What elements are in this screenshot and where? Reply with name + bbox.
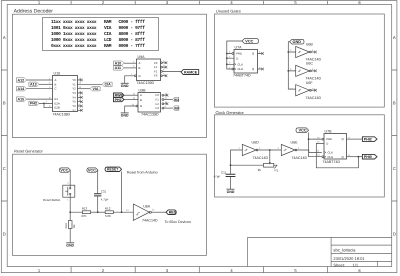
svg-text:U9A: U9A (138, 55, 146, 59)
svg-text:A12: A12 (18, 78, 25, 82)
net label MRD/CE (bold) (181, 70, 199, 75)
unused inverter outputs (314, 51, 317, 54)
svg-text:PH2: PH2 (115, 98, 122, 102)
net label A12 (16, 78, 26, 82)
svg-text:VIA: VIA (104, 26, 112, 31)
net label A15 (16, 97, 26, 101)
svg-text:1/1: 1/1 (353, 262, 359, 267)
svg-text:R12: R12 (105, 206, 111, 210)
svg-text:A: A (393, 35, 396, 40)
net label A14 (16, 87, 26, 91)
svg-text:74AC14D: 74AC14D (292, 156, 308, 160)
svg-text:C11: C11 (221, 170, 227, 174)
svg-text:C000 - ffff: C000 - ffff (119, 19, 146, 25)
svg-text:Unused Gates: Unused Gates (216, 9, 241, 14)
svg-text:B: B (3, 100, 6, 105)
ground (C11) (227, 188, 235, 190)
svg-text:74ABT74D: 74ABT74D (323, 160, 341, 164)
U9B output stubs (164, 95, 167, 104)
net label RD (172, 97, 179, 101)
power flag VCC (clock) (296, 128, 309, 133)
svg-text:A15: A15 (18, 97, 25, 101)
U7A output stubs (258, 54, 263, 70)
U9A output stubs (162, 63, 166, 76)
U10 pin numbers (46, 77, 82, 110)
flip-flop U7A 74ABT74D (234, 50, 258, 74)
power flag VCC (switch) (59, 168, 70, 172)
section box: Address Decoder (12, 9, 206, 138)
svg-text:Address Decoder: Address Decoder (14, 9, 54, 15)
svg-text:RD: RD (174, 98, 179, 102)
svg-text:GND: GND (66, 244, 74, 248)
decoder U9B 74AC139 body (138, 93, 161, 113)
svg-text:U6C: U6C (306, 62, 314, 66)
junction: feedback node (230, 164, 232, 166)
U9A unused outputs (165, 62, 168, 65)
wire A14 to pin C (27, 88, 53, 90)
svg-text:9000 - 97ff: 9000 - 97ff (119, 25, 146, 31)
svg-text:U7A: U7A (235, 46, 243, 50)
svg-text:1000 1xxx xxxx xxxx: 1000 1xxx xxxx xxxx (51, 31, 97, 37)
wire U9B Y1 to IO1 (164, 99, 173, 101)
svg-text:Reset Button: Reset Button (43, 198, 61, 202)
svg-text:11xx xxxx xxxx xxxx: 11xx xxxx xxxx xxxx (51, 20, 97, 25)
U9B enable wire to GND (125, 106, 136, 113)
svg-text:23/01/2020 19:01: 23/01/2020 19:01 (333, 256, 365, 261)
wire Y1 to CIA (78, 83, 103, 85)
svg-text:D: D (236, 56, 238, 60)
net label PH2b (bold) (114, 97, 125, 101)
U7A CLK arrows (234, 63, 236, 70)
wire CS to U9B pin B (124, 99, 138, 101)
output stubs Y0-Y7 (78, 80, 82, 110)
svg-text:Y3: Y3 (72, 91, 76, 95)
decoder U9A 74AC139 body (137, 59, 161, 81)
svg-text:RESET: RESET (107, 168, 119, 172)
border column numbers top (38, 0, 362, 5)
wire VCC to switch (69, 171, 71, 186)
wire VCC to U7A inputs (227, 41, 242, 69)
feedback wire Qbar to D (316, 143, 358, 167)
svg-text:2k: 2k (258, 168, 262, 172)
U9B output bubbles (162, 94, 164, 96)
wire switch to node (70, 197, 82, 212)
svg-text:74AC14D: 74AC14D (253, 156, 269, 160)
svg-text:B: B (140, 98, 142, 102)
svg-text:74ABT74D: 74ABT74D (233, 74, 251, 78)
svg-text:8800 - 8fff: 8800 - 8fff (119, 31, 146, 37)
wire VCC2 down to C31 (97, 171, 99, 194)
svg-text:1000 0xxx xxxx xxxx: 1000 0xxx xxxx xxxx (51, 37, 97, 43)
wire VCC to U7B PRE and CLR (309, 133, 322, 157)
svg-text:5.6K: 5.6K (105, 214, 111, 218)
no-connect X marks (80, 51, 317, 112)
svg-text:C31: C31 (101, 189, 107, 193)
svg-text:VCC: VCC (245, 39, 253, 43)
svg-text:D: D (393, 231, 396, 236)
trimmer P1 body (264, 163, 274, 167)
switch SW1 reset button (63, 185, 75, 197)
net label VIA (90, 87, 100, 91)
svg-text:47pF: 47pF (214, 175, 221, 179)
net label WR (172, 106, 179, 110)
svg-text:R13: R13 (82, 206, 88, 210)
inverter U6F 74AC14D (296, 85, 312, 96)
net label PHI0 (bold) (362, 154, 377, 159)
wire A13 to pin B (39, 83, 53, 85)
wire inverter to RES (151, 211, 166, 213)
svg-text:CLR: CLR (238, 67, 244, 71)
wire PH2 to pin G2A with branch to G2B (39, 103, 53, 107)
svg-text:D: D (3, 231, 6, 236)
svg-text:C: C (393, 166, 396, 171)
inverter U6E 74AC14D (281, 144, 297, 155)
U9B unused outputs (166, 94, 169, 97)
wire U9A Y2 to MRD/CE (162, 70, 181, 72)
svg-text:A11: A11 (115, 66, 121, 70)
svg-text:B: B (393, 100, 396, 105)
net label A11 (114, 66, 125, 70)
svg-text:VIA: VIA (93, 87, 99, 91)
svg-text:P1: P1 (275, 168, 279, 172)
U9A ground (121, 82, 129, 84)
power flag GND (unused inverters) (290, 39, 305, 44)
svg-text:A14: A14 (18, 87, 25, 91)
svg-text:E2B: E2B (55, 106, 60, 110)
svg-text:U6B: U6B (306, 43, 314, 47)
U9B enable bubble (136, 105, 138, 107)
svg-text:U6D: U6D (252, 141, 260, 145)
svg-text:F3: F3 (156, 106, 160, 110)
resistor R13 27K (82, 211, 90, 214)
junction: inverter output node (269, 149, 271, 151)
net label PH2 (29, 101, 39, 105)
svg-text:VCC: VCC (88, 168, 96, 172)
svg-text:B: B (55, 82, 57, 86)
svg-text:A10: A10 (115, 62, 122, 66)
svg-text:G: G (140, 104, 142, 108)
net label A13 (29, 82, 39, 86)
svg-text:Sheet:: Sheet: (333, 262, 345, 267)
svg-text:RAM: RAM (104, 20, 112, 25)
U9B ground (121, 112, 129, 114)
U10 inside pin names (55, 78, 77, 112)
net label A10 (114, 61, 125, 65)
junction: VCC to PRE tap (308, 138, 310, 140)
junction: switch/R13/R14 node (69, 211, 71, 213)
svg-text:PHI0: PHI0 (364, 155, 372, 159)
svg-text:Y1: Y1 (72, 82, 76, 86)
svg-text:C: C (3, 166, 6, 171)
svg-text:C: C (55, 87, 57, 91)
junction dots on VCC rail (226, 53, 228, 55)
svg-text:A: A (139, 61, 141, 65)
wire oscillator input node (231, 150, 243, 174)
trimmer P1 wiper arrow (269, 162, 271, 165)
junction: C31 node (97, 211, 99, 213)
net label RES (bold) (166, 210, 176, 215)
U9A inside pin names (139, 61, 158, 78)
U9B inside pin names (140, 93, 159, 110)
svg-text:PRE: PRE (236, 52, 242, 56)
svg-text:D: D (326, 142, 328, 146)
svg-text:CLR: CLR (328, 155, 334, 159)
svg-text:To 65xx Devices: To 65xx Devices (165, 220, 191, 224)
ground (R14) (66, 242, 74, 244)
svg-text:0xxx xxxx xxxx xxxx: 0xxx xxxx xxxx xxxx (51, 43, 97, 49)
svg-text:WR: WR (174, 106, 180, 110)
svg-text:A: A (140, 93, 142, 97)
svg-text:CLK: CLK (238, 62, 244, 66)
wire Y2 to VIA (78, 88, 91, 90)
svg-text:Reset Generator: Reset Generator (14, 148, 43, 153)
junction: Qbar feedback tap (358, 156, 360, 158)
svg-text:GND: GND (227, 190, 235, 194)
svg-text:LCD: LCD (104, 37, 112, 43)
svg-text:B: B (139, 66, 141, 70)
svg-text:74AC139D: 74AC139D (137, 81, 155, 85)
svg-text:U6F: U6F (306, 81, 314, 85)
wire U7B Qbar to PHI0 (347, 156, 363, 158)
wire A12 to pin A (27, 79, 53, 81)
svg-text:RAM: RAM (104, 44, 112, 49)
svg-text:A: A (3, 35, 6, 40)
capacitor C31 4.7uF (94, 194, 101, 196)
power flag VCC (C31) (87, 168, 98, 172)
svg-text:U10: U10 (54, 71, 61, 75)
svg-text:74AC14D: 74AC14D (142, 219, 158, 223)
U9B pin numbers (132, 93, 168, 109)
wire R13 to R12 (91, 211, 106, 213)
svg-text:RES: RES (169, 210, 177, 214)
wire U7B Q to PHI2 (347, 138, 363, 140)
net label CIA (102, 82, 112, 86)
svg-text:U9B: U9B (139, 88, 147, 92)
svg-text:VCC: VCC (299, 129, 307, 133)
svg-text:Y7: Y7 (72, 108, 76, 112)
junction G2A branch (43, 103, 45, 105)
wire A11 to U9A pin B (124, 67, 137, 69)
svg-text:Clock Generator: Clock Generator (216, 110, 245, 115)
svg-text:sbc_lottocia: sbc_lottocia (333, 248, 356, 253)
border row letters right (393, 35, 396, 237)
svg-text:0000 - 7fff: 0000 - 7fff (119, 43, 146, 49)
svg-text:PH2: PH2 (30, 102, 37, 106)
wire inv2 out to U7B CLK (297, 150, 322, 152)
U9A enable wire to GND (125, 76, 135, 84)
svg-text:27K: 27K (81, 214, 86, 218)
U10 unused outputs (80, 79, 83, 82)
resistor R12 5.6K (105, 211, 113, 214)
inverter U6A 74AC14D (133, 204, 151, 220)
junction dots on GND rail (287, 51, 289, 53)
wire A10 to U9A pin A (124, 62, 137, 64)
svg-text:A13: A13 (30, 83, 37, 87)
net label RWB (bold) (114, 93, 125, 97)
power flag VCC (U7A) (242, 39, 259, 44)
svg-text:74AC139D: 74AC139D (141, 113, 159, 117)
wire feedback to trimmer (231, 164, 264, 166)
svg-text:GND: GND (121, 84, 129, 88)
svg-text:PHI2: PHI2 (364, 137, 372, 141)
net label PHI2 (bold) (362, 137, 377, 142)
junction: RESET node (121, 211, 123, 213)
border column numbers bottom (38, 268, 362, 273)
svg-text:GND: GND (293, 40, 302, 44)
section box: Clock Generator (215, 110, 385, 197)
svg-text:Reset from Arduino: Reset from Arduino (127, 171, 158, 175)
resistor R14 (vertical) (69, 212, 71, 243)
svg-text:U6E: U6E (291, 141, 299, 145)
svg-text:PRE: PRE (326, 137, 332, 141)
svg-text:CIA: CIA (105, 83, 112, 87)
wire trimmer wiper up to output node (269, 150, 271, 162)
flip-flop U7B 74ABT74D (324, 134, 347, 160)
section box: Reset Generator (13, 148, 207, 255)
wire U9B Y3 to IO2 (164, 107, 173, 109)
wire RESET label down (121, 171, 123, 212)
decoder U10 74AC138 body (53, 76, 78, 112)
svg-text:U6A: U6A (143, 204, 151, 208)
svg-text:F3: F3 (154, 74, 158, 78)
U9A pin numbers (131, 60, 165, 76)
U9A output bubbles (161, 62, 163, 64)
inverter U6C 74AC14D (296, 65, 312, 76)
net label ~RESET (bold) (105, 167, 122, 171)
svg-text:G: G (139, 74, 141, 78)
inverter U6D 74AC14D (242, 144, 258, 155)
svg-text:74AC14D: 74AC14D (306, 96, 322, 100)
wire R12 to inverter (113, 211, 133, 213)
svg-text:GND: GND (121, 114, 129, 118)
inverter U6B 74AC14D (296, 46, 312, 57)
svg-text:R14: R14 (65, 223, 68, 228)
wire RWB to U9B pin A (124, 94, 138, 96)
memory map table (43, 18, 159, 51)
svg-text:U7B: U7B (325, 130, 333, 134)
svg-text:VCC: VCC (60, 168, 68, 172)
title block (248, 237, 392, 266)
svg-text:4.7µF: 4.7µF (101, 197, 109, 201)
wire inv1 out to inv2 in (258, 149, 281, 151)
svg-text:74AC138D: 74AC138D (53, 112, 71, 116)
border row letters left (3, 35, 6, 237)
svg-text:CIA: CIA (104, 31, 112, 37)
svg-text:RAMCE: RAMCE (184, 70, 198, 74)
U9A enable bubble (135, 75, 137, 77)
svg-text:8000 - 87ff: 8000 - 87ff (119, 37, 146, 43)
U7A unused outputs (261, 52, 264, 55)
section box: Unused Gates (215, 9, 385, 107)
U7B pin numbers (317, 136, 351, 157)
wire A15 to pin G1 (27, 98, 53, 100)
svg-text:1001 0xxx xxxx xxxx: 1001 0xxx xxxx xxxx (51, 25, 97, 31)
capacitor C11 47pF (226, 174, 236, 176)
wire GND to inverter inputs (288, 42, 295, 89)
